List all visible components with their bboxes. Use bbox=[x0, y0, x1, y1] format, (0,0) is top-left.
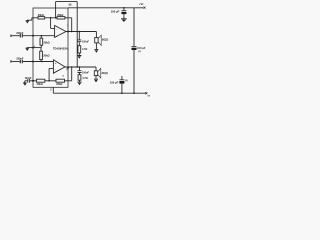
wire input1 bbox=[12, 35, 20, 37]
wire output2 bbox=[65, 66, 96, 68]
pin label 2 bbox=[50, 89, 52, 91]
label 100uF (1) bbox=[137, 46, 146, 53]
svg-text:100 µF: 100 µF bbox=[111, 10, 120, 14]
svg-text:8Ω(2): 8Ω(2) bbox=[102, 38, 108, 41]
capacitor C3 100nF svr bbox=[25, 80, 28, 82]
pin label 7 bbox=[66, 69, 68, 71]
input 1 terminal X bbox=[10, 35, 12, 37]
ground amp1 ref bbox=[27, 18, 32, 20]
svg-text:TDA8943SA: TDA8943SA bbox=[53, 47, 68, 51]
resistor R6 20k amp2 fb bbox=[56, 79, 65, 82]
label 20k bbox=[37, 83, 43, 86]
capacitor C5 100uF rail bbox=[132, 46, 137, 48]
speaker LS1 bbox=[95, 32, 97, 38]
resistor R1a 20k input bias upper bbox=[40, 36, 42, 39]
wire amp1 fb node bbox=[32, 17, 38, 19]
svg-text:20kΩ: 20kΩ bbox=[37, 83, 43, 86]
svg-text:4.7Ω: 4.7Ω bbox=[82, 48, 87, 51]
ground top-right bbox=[121, 18, 127, 20]
pin label (9) bbox=[69, 4, 72, 6]
pin label 1 bbox=[67, 26, 69, 28]
wire node bbox=[45, 17, 57, 19]
label 8ohm (4) bbox=[102, 72, 108, 75]
label 20k bbox=[57, 14, 63, 17]
IC label TDA8943SA bbox=[53, 47, 68, 51]
label 20k bbox=[56, 83, 62, 86]
node fb/minus bbox=[50, 17, 57, 19]
wire input2 to amp bbox=[23, 61, 54, 63]
wire gnd pin stub bbox=[52, 87, 54, 93]
pin label 3 bbox=[34, 46, 36, 48]
wire cross-coupling top bbox=[56, 2, 78, 67]
op-amp U1a bbox=[55, 26, 66, 38]
wire output1 bbox=[66, 31, 96, 33]
svg-text:20kΩ: 20kΩ bbox=[56, 83, 62, 86]
wire right rail down bbox=[133, 8, 135, 46]
resistor R4 4.7ohm snubber1 bbox=[78, 42, 80, 46]
label 20k bbox=[44, 41, 50, 44]
svg-text:100nF: 100nF bbox=[25, 77, 32, 80]
label 4.7ohm bbox=[82, 48, 87, 51]
ground speaker1 bbox=[94, 49, 98, 51]
ground snubber2 bbox=[77, 81, 81, 83]
label 4.7ohm bbox=[82, 77, 87, 80]
terminal 0V bottom right bbox=[145, 92, 147, 94]
speaker LS2 bbox=[95, 67, 97, 71]
capacitor C8 100nF snubber2 bbox=[79, 67, 81, 70]
resistor R1b 20k input bias lower bbox=[40, 48, 42, 52]
svg-text:100nF: 100nF bbox=[82, 41, 89, 44]
capacitor C6 100uF bottom bbox=[121, 76, 123, 80]
ground svr bbox=[24, 81, 26, 83]
wire bias ground rail bbox=[27, 47, 42, 49]
label 20k bbox=[38, 14, 44, 17]
svg-text:20kΩ: 20kΩ bbox=[44, 41, 50, 44]
terminal +Vp bbox=[143, 7, 145, 9]
label 100nF bbox=[82, 41, 89, 44]
svg-text:0V: 0V bbox=[148, 95, 150, 97]
ground input bias bbox=[26, 47, 29, 49]
label 220nF bbox=[16, 58, 24, 61]
IC box U1 TDA8943SA outline bbox=[33, 8, 68, 87]
label 100nF bbox=[25, 77, 32, 80]
node amp2 minus bbox=[48, 80, 50, 82]
resistor R5 20k amp2 bbox=[36, 79, 44, 82]
op-amp U1b bbox=[53, 60, 65, 73]
capacitor C7 100nF snubber1 bbox=[78, 32, 80, 40]
pin label 4 bbox=[62, 75, 64, 78]
box pins bbox=[32, 31, 69, 82]
label 220nF bbox=[16, 32, 24, 35]
svg-text:20kΩ: 20kΩ bbox=[43, 55, 49, 58]
wire amp2 fb chain bbox=[33, 80, 36, 82]
node R1a/input1 bbox=[41, 35, 43, 37]
capacitor C1 220nF input1 bbox=[20, 34, 22, 38]
svg-text:100 µF: 100 µF bbox=[137, 46, 146, 50]
svg-text:20kΩ: 20kΩ bbox=[57, 14, 63, 17]
node rail/bottom bbox=[121, 92, 135, 94]
svg-text:-: - bbox=[56, 27, 57, 31]
wire input1 to amp bbox=[23, 35, 55, 37]
resistor R7 4.7ohm snubber2 bbox=[79, 73, 81, 75]
wire fb to output bbox=[65, 18, 72, 32]
svg-text:8Ω(4): 8Ω(4) bbox=[102, 72, 108, 75]
node fb1/out bbox=[71, 31, 80, 33]
wire amp1 minus input bbox=[51, 18, 55, 29]
svg-text:(9): (9) bbox=[69, 4, 72, 6]
label 100uF bbox=[111, 10, 120, 14]
wire amp2 minus L bbox=[49, 68, 53, 80]
wire fb2 to output bbox=[65, 67, 72, 81]
svg-text:4.7Ω: 4.7Ω bbox=[82, 77, 87, 80]
svg-text:100 µF: 100 µF bbox=[110, 80, 119, 84]
node supply/C4 bbox=[123, 7, 125, 9]
label 100nF bbox=[82, 71, 89, 74]
ground snubber1 bbox=[77, 55, 81, 57]
label +Vp bbox=[139, 2, 144, 6]
resistor R3 20k amp1 fb bbox=[57, 17, 65, 19]
label 8ohm (2) bbox=[102, 38, 108, 41]
node R1b/input2 bbox=[41, 61, 43, 63]
svg-text:220nF: 220nF bbox=[16, 58, 24, 61]
svg-text:(3): (3) bbox=[125, 80, 128, 82]
label 20k bbox=[43, 55, 49, 58]
wire supply top from box to +Vp terminal bbox=[68, 7, 143, 9]
capacitor C2 220nF input2 bbox=[20, 60, 22, 64]
svg-text:220nF: 220nF bbox=[16, 32, 24, 35]
svg-text:100nF: 100nF bbox=[82, 71, 89, 74]
wire input2 bbox=[12, 61, 20, 63]
capacitor C4 100uF top decoupling bbox=[123, 8, 125, 11]
resistor R2 20k amp1 bbox=[38, 17, 45, 19]
input 2 terminal X bbox=[10, 61, 12, 63]
wire bottom rail bbox=[53, 92, 145, 94]
svg-text:-: - bbox=[55, 67, 56, 71]
svg-text:(1): (1) bbox=[138, 51, 141, 53]
label 100uF (3) bbox=[110, 80, 128, 84]
ground speaker2 bbox=[94, 78, 98, 80]
node out2 junctions bbox=[71, 66, 80, 68]
svg-text:20kΩ: 20kΩ bbox=[38, 14, 44, 17]
